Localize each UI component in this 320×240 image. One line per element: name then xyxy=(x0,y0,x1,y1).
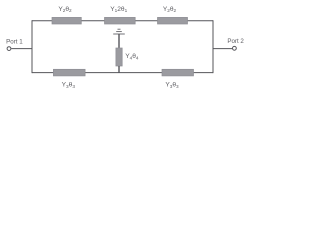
svg-text:Port 1: Port 1 xyxy=(6,38,23,45)
port 1 terminal xyxy=(7,47,11,51)
svg-text:Y4θ4: Y4θ4 xyxy=(125,53,139,60)
svg-text:Y2θ2: Y2θ2 xyxy=(163,6,177,13)
wire port 1 lead xyxy=(11,48,32,50)
transmission line Y1 2theta1 (top middle) xyxy=(105,17,136,24)
svg-text:Y2θ2: Y2θ2 xyxy=(58,6,72,13)
wire top line xyxy=(32,20,213,22)
svg-text:Y12θ1: Y12θ1 xyxy=(110,6,127,13)
wire port 2 lead xyxy=(213,48,232,50)
transmission line Y2 theta2 (top right) xyxy=(158,17,188,24)
transmission line Y2 theta2 (top left) xyxy=(52,17,81,24)
wire bottom line xyxy=(32,72,213,74)
ground (top of shunt stub) xyxy=(113,29,125,34)
svg-text:Y3θ3: Y3θ3 xyxy=(165,82,179,89)
transmission line Y4 theta4 (shunt stub) xyxy=(116,48,122,66)
wire ground to stub xyxy=(118,34,120,48)
transmission line Y3 theta3 (bottom left) xyxy=(53,69,85,76)
port 2 terminal xyxy=(233,46,237,50)
transmission line Y3 theta3 (bottom right) xyxy=(162,69,194,76)
svg-text:Port 2: Port 2 xyxy=(227,38,244,45)
wire stub to bottom line xyxy=(118,66,120,73)
wire right vertical xyxy=(212,20,214,73)
wire left vertical xyxy=(31,20,33,73)
svg-text:Y3θ3: Y3θ3 xyxy=(62,82,76,89)
